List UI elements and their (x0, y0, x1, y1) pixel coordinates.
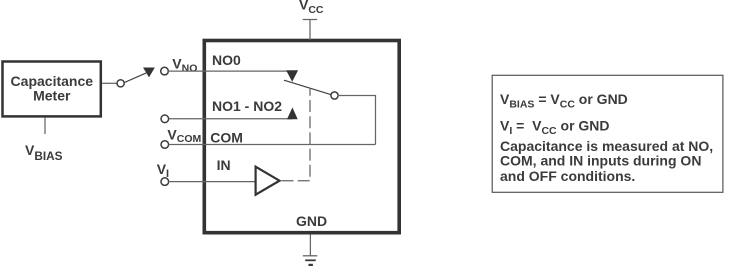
note box (492, 75, 723, 192)
wire VBIAS stub (44, 118, 46, 134)
wire NO0 (168, 70, 293, 72)
IC box U1 (204, 41, 399, 233)
svg-text:NO0: NO0 (212, 52, 241, 68)
switch S2 pole contact (331, 92, 338, 99)
wire VCC to box (309, 20, 311, 41)
node VI terminal (161, 178, 169, 186)
svg-text:VCC: VCC (299, 0, 324, 16)
switch S1 pole contact (117, 80, 124, 87)
wire GND stub (309, 235, 311, 256)
svg-text:VI: VI (157, 161, 169, 180)
svg-text:Capacitance is measured at NO,: Capacitance is measured at NO, (500, 138, 713, 154)
node VCOM terminal (161, 141, 169, 149)
ground symbol (303, 256, 318, 265)
switch S2 NO1-NO2 contact arrow (287, 107, 298, 119)
switch S1 arm (124, 73, 146, 83)
node VNO terminal (161, 67, 169, 75)
switch S2 arm (284, 80, 332, 95)
wire buffer control dashed (282, 89, 311, 181)
svg-text:VBIAS: VBIAS (25, 142, 63, 163)
svg-text:IN: IN (217, 157, 231, 173)
wire NO1-NO2 (169, 118, 293, 120)
svg-text:COM, and IN inputs during ON: COM, and IN inputs during ON (500, 153, 701, 169)
wire IN (169, 181, 255, 183)
buffer U2 (256, 167, 280, 195)
svg-text:and OFF conditions.: and OFF conditions. (500, 168, 635, 184)
VCC terminal bar (303, 19, 317, 21)
svg-text:Meter: Meter (33, 88, 71, 104)
wire COM (169, 144, 376, 146)
svg-text:GND: GND (296, 213, 327, 229)
wire switch pole to right (338, 96, 376, 145)
svg-text:VCOM: VCOM (167, 126, 201, 145)
wire meter to switch (102, 82, 117, 84)
capacitance meter box (3, 62, 101, 117)
node NO1-NO2 terminal (161, 115, 169, 123)
svg-text:COM: COM (210, 129, 243, 145)
svg-text:NO1 - NO2: NO1 - NO2 (212, 98, 282, 114)
switch S2 NO0 contact arrow (286, 70, 298, 81)
switch S1 arrow contact (143, 68, 155, 78)
